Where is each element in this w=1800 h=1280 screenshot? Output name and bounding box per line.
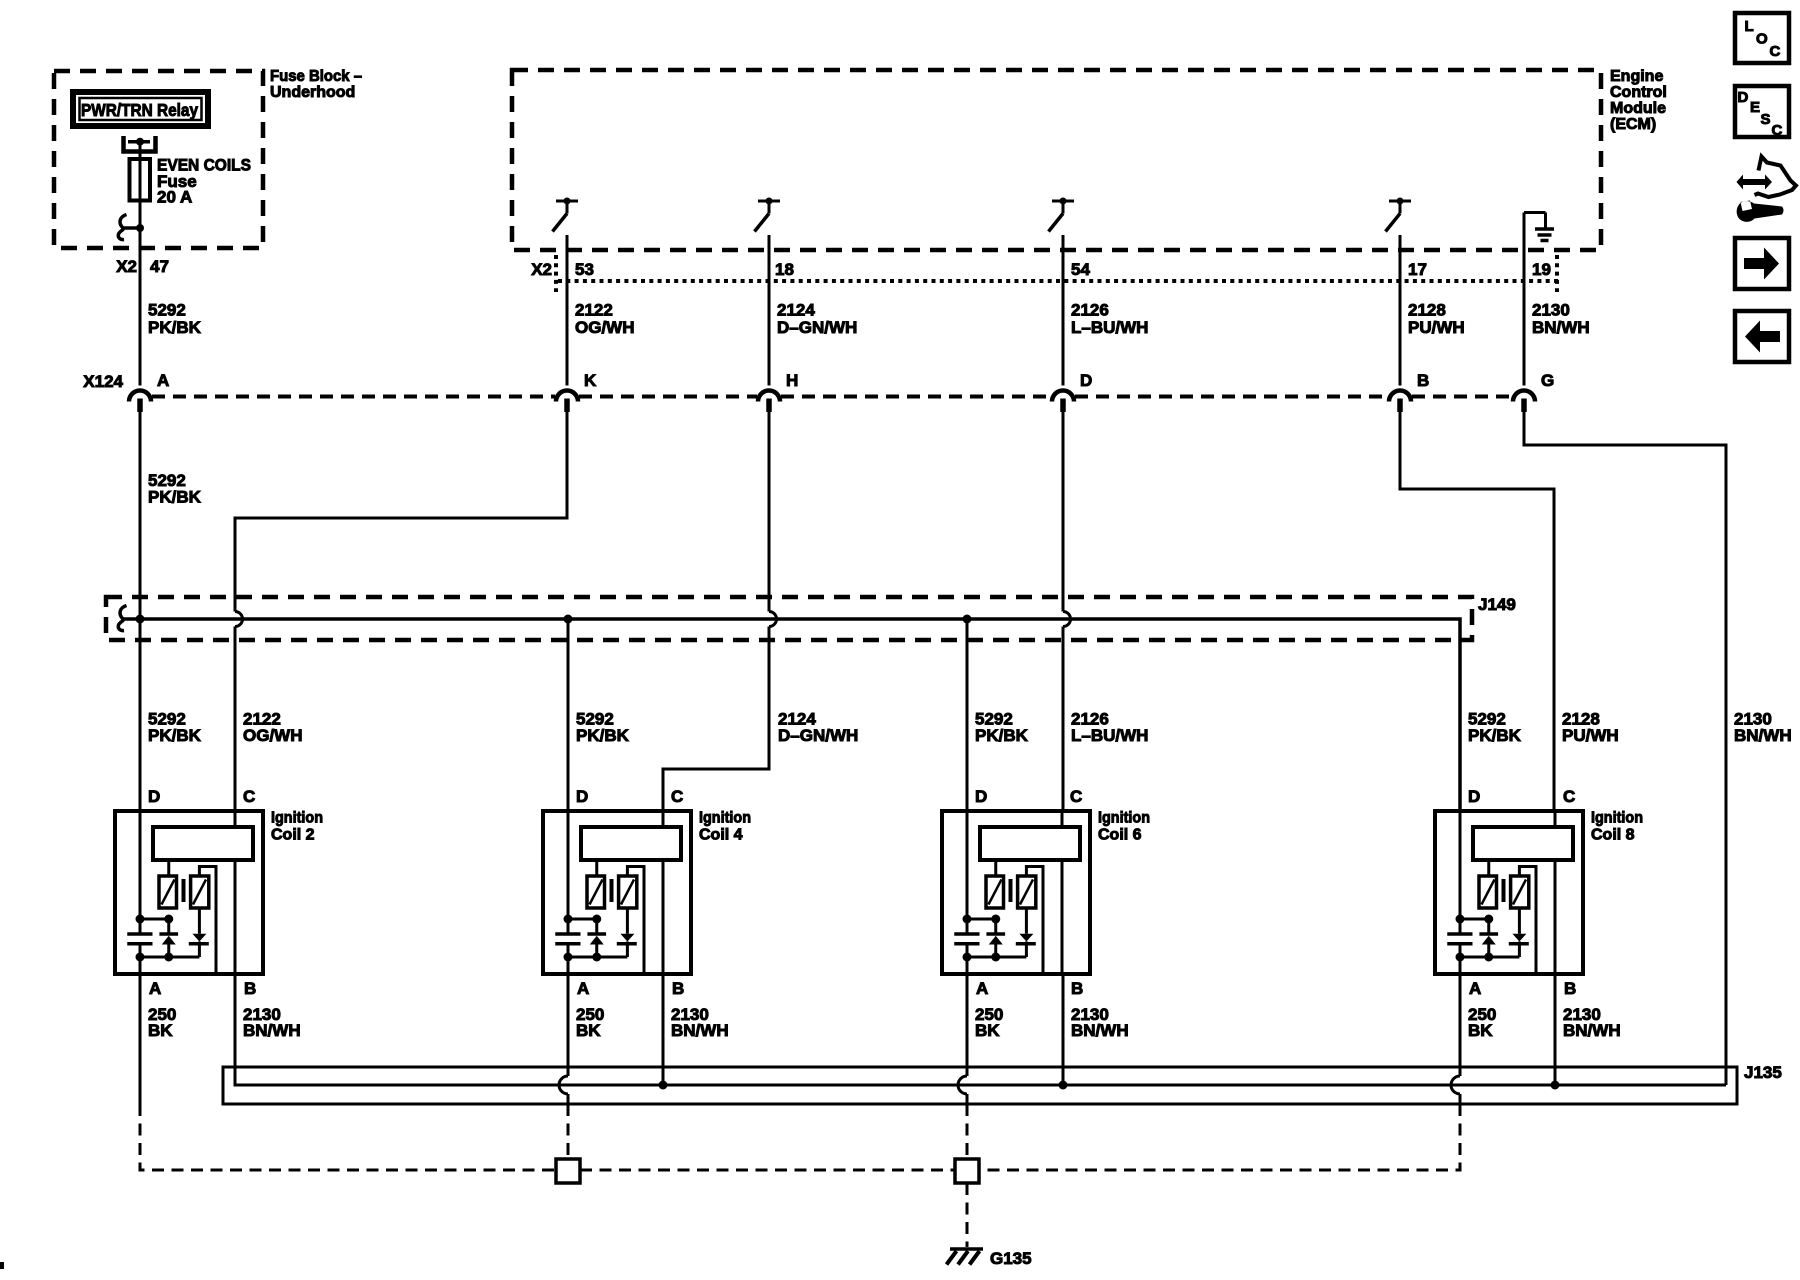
coil 4 pin B bbox=[672, 979, 684, 998]
coil 8 pin D bbox=[1468, 787, 1480, 806]
icon back arrow box bbox=[1735, 311, 1789, 362]
wire label 250 BK coil6 bbox=[975, 1005, 1003, 1040]
coil 8 pin A bbox=[1469, 979, 1481, 998]
J135 bus 2130 BN/WH bbox=[235, 974, 1726, 1085]
ignition coil 8 box bbox=[1435, 810, 1643, 975]
J149 junction to coil 2 feed bbox=[136, 615, 145, 624]
ECM driver coil 2 (pin 53) bbox=[553, 198, 579, 232]
coil 4 junction bar lower bbox=[568, 953, 627, 962]
ECM driver coil 8 (pin 17) bbox=[1386, 198, 1412, 232]
coil 2 pin B bbox=[244, 979, 256, 998]
svg-text:20 A: 20 A bbox=[157, 188, 192, 207]
coil 4 secondary output to plug bbox=[627, 867, 644, 975]
coil 4 capacitor bbox=[555, 934, 580, 944]
coil 4 diode 2 bbox=[617, 908, 637, 957]
wire 2122 OG/WH jog K to coil 2 C bbox=[235, 412, 567, 811]
ground G135 bbox=[947, 1249, 1032, 1268]
wire label 2126 L-BU/WH bbox=[1071, 301, 1148, 338]
svg-text:C: C bbox=[1772, 122, 1783, 139]
svg-text:BK: BK bbox=[148, 1021, 173, 1040]
ground run dashed middle segment bbox=[580, 1169, 955, 1172]
coil 2 secondary output to plug bbox=[199, 867, 216, 975]
svg-text:A: A bbox=[157, 371, 169, 390]
coil 6 junction bar lower bbox=[967, 953, 1026, 962]
svg-text:E: E bbox=[1750, 99, 1760, 116]
connector X124 dashed row bbox=[152, 395, 1512, 399]
icon LOC box bbox=[1735, 13, 1789, 63]
icon swap tools bbox=[1737, 157, 1797, 222]
wire label 250 BK coil2 bbox=[148, 1005, 176, 1040]
coil 8 capacitor bbox=[1447, 934, 1472, 944]
coil 2 pin A bbox=[149, 979, 161, 998]
svg-text:PK/BK: PK/BK bbox=[148, 726, 202, 745]
svg-text:PU/WH: PU/WH bbox=[1408, 318, 1465, 337]
svg-text:A: A bbox=[577, 979, 589, 998]
coil 4 primary winding bbox=[587, 860, 605, 908]
svg-text:PK/BK: PK/BK bbox=[148, 318, 202, 337]
coil 4 internal wire cap to lower bar bbox=[564, 944, 573, 974]
svg-text:L–BU/WH: L–BU/WH bbox=[1071, 318, 1148, 337]
wire label 2122 OG/WH bbox=[575, 301, 635, 338]
svg-text:B: B bbox=[672, 979, 684, 998]
page edge mark bbox=[0, 1262, 4, 1269]
coil 6 secondary output to plug bbox=[1026, 867, 1043, 975]
icon forward arrow box bbox=[1735, 238, 1789, 289]
coil 2 pin C bbox=[243, 787, 255, 806]
splice feed hook in fuse block bbox=[118, 215, 144, 240]
coil 6 diode 2 bbox=[1016, 908, 1036, 957]
svg-text:D: D bbox=[148, 787, 160, 806]
coil 6 pin B bbox=[1071, 979, 1083, 998]
svg-text:53: 53 bbox=[575, 260, 594, 279]
coil 2 junction bar lower bbox=[140, 953, 199, 962]
coil 8 pin C bbox=[1563, 787, 1575, 806]
coil 6 core bbox=[1009, 879, 1013, 902]
coil 6 internal wire cap to lower bar bbox=[963, 944, 972, 974]
ignition coil 2 box bbox=[115, 810, 323, 975]
wire 250 BK coil 6 to ground run bbox=[958, 974, 967, 1159]
wire 250 BK coil 4 to ground run bbox=[559, 974, 568, 1159]
svg-text:Ignition: Ignition bbox=[1591, 810, 1643, 827]
wire ECM pin 19 to X124 G bbox=[1523, 213, 1526, 386]
wire label 2124 coil4 bbox=[778, 710, 858, 746]
fuse EVEN COILS 20 A bbox=[130, 156, 252, 207]
coil 8 primary winding bbox=[1479, 860, 1497, 908]
coil 4 internal D feed bbox=[564, 811, 573, 934]
coil 8 core bbox=[1502, 879, 1506, 902]
svg-text:Fuse Block –: Fuse Block – bbox=[270, 68, 362, 85]
svg-text:2130: 2130 bbox=[1532, 301, 1570, 320]
coil 6 pin C bbox=[1070, 787, 1082, 806]
coil 4 junction bar upper bbox=[568, 915, 601, 924]
ground splice square (coil 4) bbox=[556, 1159, 580, 1183]
coil 2 wire C to module bbox=[234, 811, 237, 827]
coil 8 junction bar upper bbox=[1460, 915, 1493, 924]
coil 2 core bbox=[182, 879, 186, 902]
wire label 2130 coil4 bbox=[671, 1005, 729, 1040]
svg-text:L–BU/WH: L–BU/WH bbox=[1071, 726, 1148, 745]
wire ECM pin 18 to X124 H bbox=[768, 235, 771, 386]
svg-text:C: C bbox=[1563, 787, 1575, 806]
svg-text:2124: 2124 bbox=[777, 301, 815, 320]
svg-text:19: 19 bbox=[1532, 260, 1551, 279]
svg-text:X2: X2 bbox=[531, 260, 552, 279]
svg-text:D–GN/WH: D–GN/WH bbox=[778, 726, 858, 745]
X124 pin H bbox=[758, 371, 798, 412]
coil 8 wire C to module bbox=[1554, 811, 1557, 827]
wire 2130 BN/WH jog G to J135 bbox=[1524, 412, 1726, 1085]
coil 2 junction bar upper bbox=[140, 915, 173, 924]
svg-text:PK/BK: PK/BK bbox=[148, 488, 202, 507]
coil 8 secondary output to plug bbox=[1519, 867, 1536, 975]
wire label 2122 coil2 bbox=[243, 710, 303, 746]
ECM driver coil 6 (pin 54) bbox=[1049, 198, 1075, 232]
wire label 2128 coil8 bbox=[1562, 710, 1619, 746]
wire relay to fuse bbox=[139, 142, 142, 159]
wire label 5292 coil8 bbox=[1468, 710, 1522, 746]
coil 2 internal wire cap to lower bar bbox=[136, 944, 145, 974]
svg-text:Engine: Engine bbox=[1610, 68, 1663, 85]
svg-text:C: C bbox=[671, 787, 683, 806]
svg-text:BK: BK bbox=[975, 1021, 1000, 1040]
X124 pin A bbox=[129, 371, 169, 412]
svg-text:PK/BK: PK/BK bbox=[1468, 726, 1522, 745]
coil 6 junction bar upper bbox=[967, 915, 1000, 924]
wire 2130 coil 4 B to J135 bbox=[659, 974, 668, 1090]
svg-text:D: D bbox=[1468, 787, 1480, 806]
wire label 5292 coil2 bbox=[148, 710, 202, 746]
X124 pin G bbox=[1513, 371, 1554, 412]
svg-text:Coil 2: Coil 2 bbox=[271, 827, 315, 844]
svg-text:Underhood: Underhood bbox=[270, 84, 355, 101]
coil 6 module bbox=[980, 827, 1080, 860]
svg-text:BN/WH: BN/WH bbox=[1563, 1021, 1621, 1040]
svg-text:BK: BK bbox=[576, 1021, 601, 1040]
coil 4 core bbox=[610, 879, 614, 902]
coil 4 module bbox=[581, 827, 681, 860]
svg-text:PWR/TRN Relay: PWR/TRN Relay bbox=[81, 100, 198, 120]
coil 6 pin A bbox=[976, 979, 988, 998]
wire label 5292 PK/BK (below X124 A) bbox=[148, 471, 202, 507]
coil 2 primary winding bbox=[159, 860, 177, 908]
svg-text:S: S bbox=[1761, 111, 1771, 128]
coil 4 diode 1 bbox=[587, 919, 606, 957]
svg-text:OG/WH: OG/WH bbox=[243, 726, 303, 745]
ignition coil 6 box bbox=[942, 810, 1150, 975]
svg-text:D: D bbox=[1080, 371, 1092, 390]
coil 2 internal D feed bbox=[136, 811, 145, 934]
svg-text:2128: 2128 bbox=[1408, 301, 1446, 320]
coil 4 pin A bbox=[577, 979, 589, 998]
svg-text:18: 18 bbox=[775, 260, 794, 279]
svg-text:A: A bbox=[149, 979, 161, 998]
connector label X2 pin 47 bbox=[116, 257, 169, 276]
svg-text:B: B bbox=[1071, 979, 1083, 998]
wire label 2126 coil6 bbox=[1071, 710, 1148, 746]
wire label 250 BK coil4 bbox=[576, 1005, 604, 1040]
coil 4 pin D bbox=[576, 787, 588, 806]
wire label 2128 PU/WH bbox=[1408, 301, 1465, 338]
svg-text:C: C bbox=[1070, 787, 1082, 806]
svg-text:A: A bbox=[1469, 979, 1481, 998]
wire ECM pin 17 to X124 B bbox=[1399, 235, 1402, 386]
wire label 250 BK coil8 bbox=[1468, 1005, 1496, 1040]
svg-text:BK: BK bbox=[1468, 1021, 1493, 1040]
svg-text:D: D bbox=[1738, 89, 1749, 106]
svg-text:Coil 8: Coil 8 bbox=[1591, 827, 1635, 844]
svg-text:A: A bbox=[976, 979, 988, 998]
svg-text:C: C bbox=[1770, 43, 1781, 60]
coil 8 internal D feed bbox=[1456, 811, 1465, 934]
coil 8 module bbox=[1473, 827, 1573, 860]
coil 6 wire C to module bbox=[1061, 811, 1064, 827]
J149 junction + feed wire to coil 4 D bbox=[564, 615, 573, 812]
svg-text:X124: X124 bbox=[83, 372, 123, 391]
svg-text:OG/WH: OG/WH bbox=[575, 318, 635, 337]
wire ECM pin 53 to X124 K bbox=[566, 235, 569, 386]
svg-text:2122: 2122 bbox=[575, 301, 613, 320]
wire label 5292 coil6 bbox=[975, 710, 1029, 746]
splice pack J149 box bbox=[106, 595, 1516, 640]
wire label 2130 coil6 bbox=[1071, 1005, 1129, 1040]
coil 8 secondary winding bbox=[1511, 876, 1529, 908]
J149 bus 5292 PK/BK bbox=[118, 606, 1460, 812]
ground splice square (coil 6) bbox=[955, 1159, 979, 1183]
ECM connector labels X2 53 18 54 17 19 bbox=[531, 260, 1551, 279]
svg-text:BN/WH: BN/WH bbox=[1071, 1021, 1129, 1040]
wire label 5292 coil4 bbox=[576, 710, 630, 746]
svg-text:BN/WH: BN/WH bbox=[243, 1021, 301, 1040]
X124 pin D bbox=[1052, 371, 1092, 412]
wire 2130 coil 6 B to J135 bbox=[1059, 974, 1068, 1090]
fuse block underhood box bbox=[54, 68, 362, 248]
svg-text:Control: Control bbox=[1610, 84, 1667, 101]
wire label 2130 coil2 bbox=[243, 1005, 301, 1040]
ECM internal ground (pin 19) bbox=[1524, 213, 1554, 241]
coil 8 diode 2 bbox=[1509, 908, 1529, 957]
coil 6 wire module to pin B bbox=[1061, 860, 1064, 974]
svg-text:47: 47 bbox=[150, 257, 169, 276]
icon DESC box bbox=[1735, 86, 1789, 139]
svg-text:Module: Module bbox=[1610, 100, 1666, 117]
coil 6 diode 1 bbox=[986, 919, 1005, 957]
svg-text:Ignition: Ignition bbox=[271, 810, 323, 827]
X124 pin B bbox=[1389, 371, 1429, 412]
coil 2 pin D bbox=[148, 787, 160, 806]
svg-text:D: D bbox=[576, 787, 588, 806]
ECM driver coil 4 (pin 18) bbox=[755, 198, 781, 232]
coil 2 diode 2 bbox=[189, 908, 209, 957]
svg-text:G135: G135 bbox=[990, 1249, 1032, 1268]
svg-text:B: B bbox=[1564, 979, 1576, 998]
svg-text:2126: 2126 bbox=[1071, 301, 1109, 320]
wire 250 BK coil 2 to ground run bbox=[140, 974, 556, 1170]
svg-text:C: C bbox=[243, 787, 255, 806]
wire 2128 PU/WH jog B to coil 8 C bbox=[1400, 412, 1554, 811]
coil 4 wire module to pin B bbox=[662, 860, 665, 974]
relay output terminal bbox=[124, 136, 156, 152]
wire label 2130 ECM ground wire bbox=[1734, 710, 1792, 746]
coil 6 pin D bbox=[975, 787, 987, 806]
svg-text:BN/WH: BN/WH bbox=[671, 1021, 729, 1040]
svg-text:PU/WH: PU/WH bbox=[1562, 726, 1619, 745]
svg-text:BN/WH: BN/WH bbox=[1532, 318, 1590, 337]
svg-text:X2: X2 bbox=[116, 257, 137, 276]
svg-text:J149: J149 bbox=[1478, 595, 1516, 614]
coil 6 primary winding bbox=[986, 860, 1004, 908]
svg-text:Coil 6: Coil 6 bbox=[1098, 827, 1142, 844]
X124 pin K bbox=[556, 371, 597, 412]
ECM X2 connector dotted row bbox=[556, 255, 1558, 292]
svg-text:K: K bbox=[584, 371, 597, 390]
coil 2 secondary winding bbox=[191, 876, 209, 908]
coil 8 pin B bbox=[1564, 979, 1576, 998]
svg-text:5292: 5292 bbox=[148, 301, 186, 320]
svg-text:B: B bbox=[244, 979, 256, 998]
svg-text:PK/BK: PK/BK bbox=[576, 726, 630, 745]
coil 2 capacitor bbox=[127, 934, 152, 944]
coil 4 wire C to module bbox=[662, 811, 665, 827]
coil 4 pin C bbox=[671, 787, 683, 806]
svg-text:H: H bbox=[786, 371, 798, 390]
coil 2 module bbox=[153, 827, 253, 860]
svg-text:D: D bbox=[975, 787, 987, 806]
wire 2126 L-BU/WH to coil 6 C bbox=[1063, 412, 1071, 811]
svg-text:PK/BK: PK/BK bbox=[975, 726, 1029, 745]
wire 250 BK coil 8 to ground run bbox=[979, 974, 1460, 1170]
J149 junction + feed wire to coil 6 D bbox=[963, 615, 972, 812]
coil 8 internal wire cap to lower bar bbox=[1456, 944, 1465, 974]
wire 5292 X124-A to coil 2 D bbox=[139, 412, 142, 811]
svg-text:L: L bbox=[1745, 18, 1754, 35]
wire splice to ground G135 bbox=[966, 1183, 969, 1247]
svg-text:G: G bbox=[1541, 371, 1554, 390]
wire 2130 coil 8 B to J135 bbox=[1551, 974, 1560, 1090]
coil 8 wire module to pin B bbox=[1554, 860, 1557, 974]
svg-text:BN/WH: BN/WH bbox=[1734, 726, 1792, 745]
wire ECM pin 54 to X124 D bbox=[1062, 235, 1065, 386]
splice pack J135 box bbox=[223, 1063, 1782, 1104]
coil 6 secondary winding bbox=[1018, 876, 1036, 908]
coil 2 wire module to pin B bbox=[234, 860, 237, 974]
wire 2124 D-GN/WH jog H to coil 4 C bbox=[663, 412, 777, 811]
svg-text:Ignition: Ignition bbox=[1098, 810, 1150, 827]
svg-text:D–GN/WH: D–GN/WH bbox=[777, 318, 857, 337]
coil 8 diode 1 bbox=[1479, 919, 1498, 957]
svg-text:54: 54 bbox=[1071, 260, 1090, 279]
coil 8 junction bar lower bbox=[1460, 953, 1519, 962]
svg-text:Coil 4: Coil 4 bbox=[699, 827, 743, 844]
wire label 2130 coil8 bbox=[1563, 1005, 1621, 1040]
wire 5292 fuse to X124 pin A bbox=[139, 201, 142, 386]
coil 6 capacitor bbox=[954, 934, 979, 944]
coil 6 internal D feed bbox=[963, 811, 972, 934]
svg-text:17: 17 bbox=[1408, 260, 1427, 279]
ignition coil 4 box bbox=[543, 810, 751, 975]
connector X124 label bbox=[83, 372, 123, 391]
svg-text:O: O bbox=[1756, 31, 1768, 48]
svg-text:Ignition: Ignition bbox=[699, 810, 751, 827]
coil 2 diode 1 bbox=[159, 919, 178, 957]
svg-text:J135: J135 bbox=[1744, 1063, 1782, 1082]
engine control module (ECM) box bbox=[512, 68, 1667, 250]
svg-text:B: B bbox=[1417, 371, 1429, 390]
relay PWR/TRN Relay bbox=[73, 92, 208, 126]
wire label 2130 BN/WH bbox=[1532, 301, 1590, 338]
wire label 5292 PK/BK (fuse output) bbox=[148, 301, 202, 338]
wire label 2124 D-GN/WH bbox=[777, 301, 857, 338]
svg-text:(ECM): (ECM) bbox=[1610, 116, 1656, 133]
coil 4 secondary winding bbox=[619, 876, 637, 908]
